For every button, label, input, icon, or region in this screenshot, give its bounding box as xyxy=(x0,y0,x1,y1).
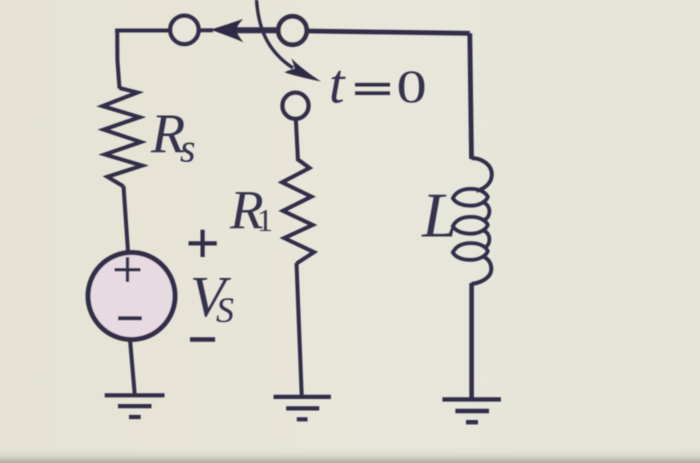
inductor L bottom hook xyxy=(472,257,492,284)
switch lower contact (circle c) xyxy=(283,93,309,119)
svg-text:S: S xyxy=(216,290,234,330)
inductor L loop 3 xyxy=(453,243,488,260)
switch blade shaft xyxy=(236,27,279,33)
switch pole contact (circle a) xyxy=(170,16,198,44)
wire: stub from circle a to blade tip xyxy=(199,28,213,32)
svg-text:t: t xyxy=(329,54,346,116)
switch hinge contact (circle b) xyxy=(278,16,306,44)
label - polarity of Vs xyxy=(190,337,215,341)
resistor R1 xyxy=(282,160,314,264)
switch throw motion arrowhead xyxy=(285,58,322,81)
wire: left vertical (top node down to Rs) xyxy=(117,29,119,89)
wire: inductor to ground 3 xyxy=(469,283,474,398)
wire: circle b to top-right corner xyxy=(307,31,470,33)
ground 1 xyxy=(105,395,165,417)
minus sign inside source xyxy=(118,316,142,320)
switch blade arrowhead xyxy=(211,19,244,42)
inductor L bump 2-3 xyxy=(484,231,489,248)
inductor L top hook xyxy=(472,158,492,191)
wire: switch lower contact to R1 xyxy=(296,119,298,161)
wire: Rs to voltage source xyxy=(124,186,129,252)
ground 2 xyxy=(274,397,331,419)
voltage source VS xyxy=(88,253,175,340)
svg-text:1: 1 xyxy=(257,202,273,238)
svg-text:s: s xyxy=(180,126,196,171)
inductor L bump 1-2 xyxy=(484,203,489,220)
svg-text:L: L xyxy=(421,180,458,251)
wire: right vertical down to inductor xyxy=(470,33,472,159)
ground 3 xyxy=(442,399,501,422)
wire: source to ground 1 xyxy=(130,340,135,395)
label + polarity of Vs xyxy=(189,230,217,257)
resistor Rs xyxy=(103,88,143,186)
switch throw motion arc xyxy=(257,0,294,68)
inductor L loop 2 xyxy=(453,217,488,234)
wire: top-left horizontal (Rs top node to switch pole a) xyxy=(115,29,168,33)
inductor L loop 1 xyxy=(453,189,488,206)
wire: R1 to ground 2 xyxy=(297,263,302,396)
svg-text:0: 0 xyxy=(397,61,427,113)
plus sign inside source xyxy=(115,257,141,282)
